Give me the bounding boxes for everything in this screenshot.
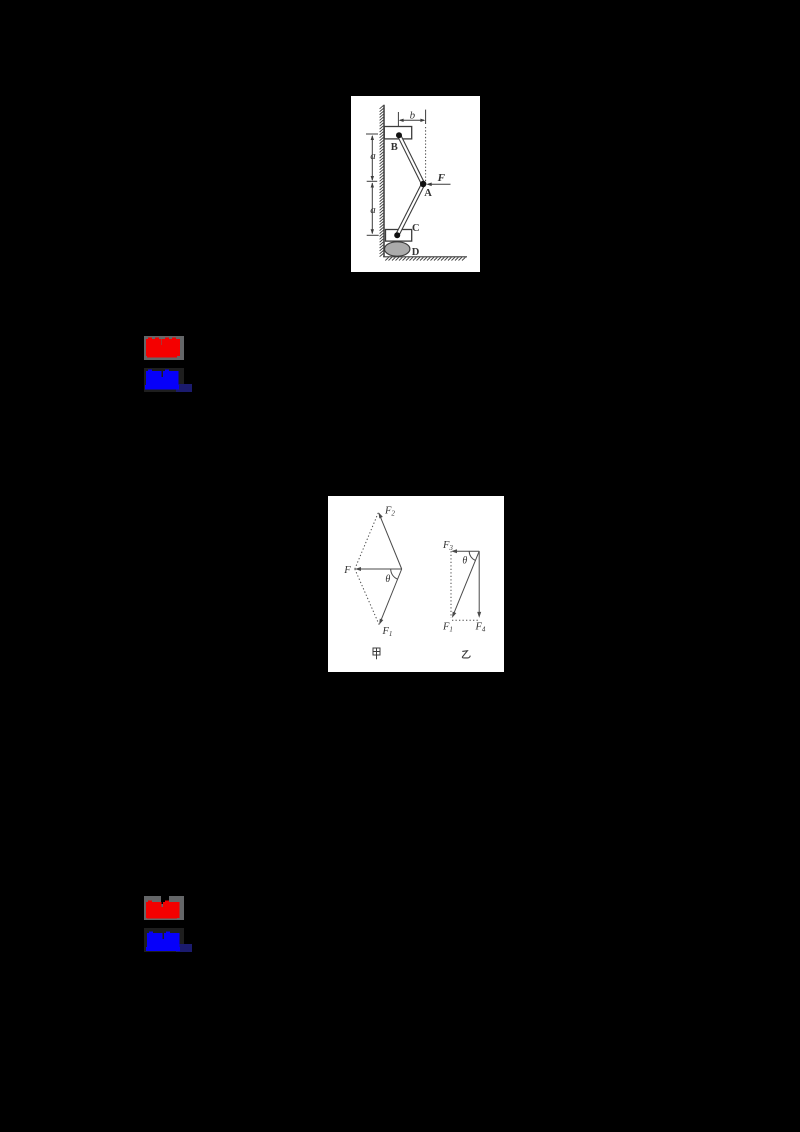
force F arrow [428,183,451,185]
dotted vertical line from b-tick to A [425,127,427,182]
b dimension ticks [397,112,399,127]
rod B-A [399,135,423,184]
svg-text:a: a [370,204,376,216]
wall line [383,105,385,257]
ground hatching [385,257,465,260]
a dimension bottom tick [367,234,379,236]
answer marker 2 (red on gray) [144,896,184,920]
pin B [396,132,402,138]
diagram yi: dotted vertical [450,551,452,618]
pin A [420,181,426,187]
diagram jia: F arrow (right vertex to left) [357,568,402,570]
analysis marker 1 (blue on dark) [144,368,184,392]
block C rect [386,230,412,242]
diagram jia: dotted parallelogram sides [355,512,379,625]
analysis marker 2 (blue on dark) [144,928,184,952]
a dimension lower [371,183,373,234]
diagram yi: F4 arrow [478,551,480,616]
diagram yi: F3 arrow [453,550,479,552]
block B rect [384,127,411,139]
pin C [394,232,400,238]
roller D ellipse [385,242,410,256]
svg-text:θ: θ [385,574,390,585]
diagram yi: F1 arrow [453,551,479,616]
diagram yi: dotted horizontal [452,619,479,621]
svg-text:F: F [343,565,351,576]
svg-text:θ: θ [462,555,467,566]
diagram jia: F2 arrow [379,514,401,569]
b dimension arrow [400,119,424,121]
diagram yi: caption 乙 [462,651,470,658]
a dimension middle tick [367,180,378,182]
rod A-C [397,184,423,235]
svg-text:A: A [424,188,432,199]
diagram jia: caption 甲 [373,648,380,659]
svg-text:B: B [391,142,398,153]
diagram jia: F1 arrow [380,569,402,623]
svg-text:D: D [412,247,420,258]
svg-text:a: a [370,150,376,162]
figure panel 1: wall bracket mechanism [351,96,480,272]
svg-text:C: C [412,223,420,234]
diagram jia: angle arc [391,569,398,579]
a dimension upper [366,133,378,135]
svg-text:F: F [437,172,446,184]
diagram yi: angle arc [469,551,475,560]
ground line [383,256,467,258]
wall hatching [380,106,384,257]
answer marker 1 (red on gray) [144,336,184,360]
figure panel 2: force diagrams [328,496,504,672]
svg-text:b: b [410,109,416,121]
